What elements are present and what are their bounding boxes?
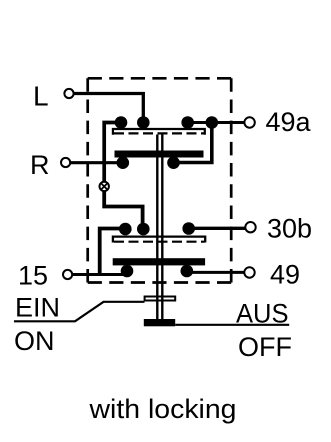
wire lamp to lower bridge contact bbox=[104, 191, 142, 225]
wire 15 terminal into box bbox=[72, 273, 127, 276]
contact dot upper row 2 bbox=[137, 116, 150, 129]
wire 49a contact down to middle contact bbox=[176, 124, 212, 163]
svg-text:49: 49 bbox=[270, 260, 300, 290]
contact dot middle row left bbox=[117, 156, 130, 169]
svg-text:30b: 30b bbox=[267, 214, 312, 244]
contact dot upper row 3 bbox=[181, 116, 194, 129]
contact dot lower bridge left bbox=[119, 223, 132, 236]
svg-text:L: L bbox=[33, 81, 49, 112]
terminal 30b bbox=[245, 222, 255, 232]
indicator lamp bbox=[100, 182, 109, 191]
terminal R bbox=[61, 158, 70, 167]
terminal L bbox=[64, 89, 73, 98]
svg-text:15: 15 bbox=[18, 261, 48, 291]
svg-text:R: R bbox=[30, 150, 50, 180]
svg-text:with locking: with locking bbox=[88, 394, 236, 424]
upper moving contact bar bbox=[115, 151, 204, 158]
wire L terminal to upper contact bbox=[74, 94, 144, 123]
actuator shaft (double line) bbox=[157, 135, 162, 322]
lever line AUS position bbox=[175, 324, 289, 326]
switch housing (dashed box) bbox=[88, 78, 232, 282]
contact dot upper row 4 bbox=[206, 116, 219, 129]
svg-text:AUS: AUS bbox=[236, 299, 289, 329]
actuator knob bar bbox=[144, 319, 175, 326]
actuator crossbar bbox=[145, 297, 176, 301]
svg-text:OFF: OFF bbox=[238, 332, 292, 362]
contact dot lower bridge right bbox=[182, 222, 195, 235]
svg-text:49a: 49a bbox=[266, 107, 312, 137]
lever line EIN position bbox=[14, 302, 145, 322]
svg-text:ON: ON bbox=[14, 326, 55, 356]
terminal 49 bbox=[244, 267, 254, 277]
contact dot upper row 1 bbox=[115, 116, 128, 129]
svg-text:EIN: EIN bbox=[15, 293, 60, 323]
terminal 15 bbox=[63, 270, 72, 279]
contact dot bottom row left bbox=[121, 265, 134, 278]
terminal 49a bbox=[244, 117, 254, 127]
upper insulating bridge bbox=[113, 129, 205, 135]
wire lower bridge contact to 30b bbox=[189, 227, 245, 230]
contact dot lower bridge mid bbox=[137, 223, 150, 236]
lower moving contact bar bbox=[113, 258, 205, 265]
wire 15 riser to lower bridge contact bbox=[100, 229, 125, 277]
lower insulating bridge bbox=[113, 237, 205, 243]
wire bottom contact to 49 bbox=[187, 271, 244, 274]
wire upper-left contact to lamp bbox=[104, 123, 121, 182]
wire upper contacts to 49a bbox=[188, 121, 245, 124]
wire R terminal to middle contact bbox=[71, 161, 124, 164]
contact dot middle row right bbox=[167, 156, 180, 169]
contact dot bottom row right bbox=[181, 265, 194, 278]
